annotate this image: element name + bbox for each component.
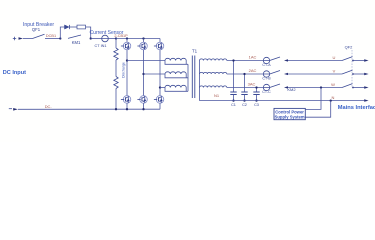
node junction bypass left (59, 37, 61, 39)
breaker QF2 pole U (342, 57, 369, 62)
node N junction control box (330, 99, 332, 101)
net label 2AC (249, 68, 257, 73)
transistor Q5 bottom leg2 (137, 96, 147, 104)
wire DC- rail (18, 108, 160, 110)
wire discharge middle (115, 60, 117, 77)
svg-text:U: U (333, 55, 336, 60)
current sensor CT-B (263, 71, 269, 77)
wire control box to N (305, 101, 330, 118)
net label V (333, 69, 336, 74)
svg-text:2-CB1P: 2-CB1P (114, 34, 128, 38)
wire V row (227, 73, 263, 75)
wire V row to breaker (288, 73, 342, 75)
svg-text:Discharge: Discharge (122, 62, 126, 78)
label Input Breaker (23, 22, 54, 28)
node DC- terminal minus sign (9, 108, 12, 110)
contactor KM2 pole U (270, 57, 288, 62)
svg-text:CT-B: CT-B (262, 77, 271, 81)
net label 2-CB1P (114, 34, 128, 38)
svg-text:DCB1: DCB1 (46, 34, 56, 38)
svg-text:C2: C2 (242, 103, 247, 107)
node DC- leg1 (126, 108, 128, 110)
transistor Q4 bottom leg1 (121, 96, 131, 104)
svg-text:N: N (332, 95, 335, 100)
label KM1 (72, 40, 81, 45)
control power supply box (274, 108, 305, 119)
transformer T1 primary winding 2 (165, 72, 188, 78)
wire N row to arrow (331, 100, 365, 102)
transistor Q1 top leg1 (121, 39, 131, 50)
resistor R discharge lower (114, 77, 118, 89)
node DC- discharge junction (115, 108, 117, 110)
wire secondary star point (199, 61, 201, 101)
node leg3 tap (159, 86, 161, 88)
wire W row (227, 87, 263, 89)
wire leg2 vertical (143, 50, 145, 96)
svg-text:Supply System: Supply System (275, 114, 305, 119)
wire leg3 tap to winding (160, 87, 165, 89)
transformer T1 core (192, 56, 195, 99)
wire DC+ to breaker (23, 38, 33, 40)
wire to current sensor (91, 38, 102, 40)
wire bypass up-left (60, 27, 64, 39)
terminal arrow DC- input (13, 108, 18, 111)
wire leg1 vertical (126, 50, 128, 96)
wire DC+ top rail (116, 38, 160, 40)
transistor Q2 top leg2 (137, 39, 147, 50)
net label N (332, 95, 335, 100)
net label 3AC (248, 81, 256, 86)
terminal arrow N (364, 99, 368, 102)
wire primary link bus (187, 64, 189, 91)
breaker QF1 (33, 34, 45, 38)
diode D1 precharge (65, 25, 70, 29)
wire U row to breaker (288, 60, 342, 62)
wire discharge bottom (115, 89, 117, 110)
current sensor CT-A (263, 57, 269, 63)
svg-text:CT-A: CT-A (262, 63, 271, 67)
wire W row to breaker (288, 87, 342, 89)
label KM2 (287, 87, 296, 92)
svg-text:QF1: QF1 (32, 27, 41, 32)
svg-text:KM2: KM2 (287, 87, 296, 92)
svg-text:C3: C3 (254, 103, 259, 107)
wire U row (227, 60, 263, 62)
label C2 (242, 103, 247, 107)
breaker QF2 pole W (342, 84, 369, 89)
label Mains Interface (338, 105, 375, 111)
transistor Q3 top leg3 (154, 39, 164, 50)
svg-text:1AC: 1AC (249, 54, 257, 59)
svg-text:C1: C1 (231, 103, 236, 107)
net label DCB1 (46, 34, 56, 38)
node leg1 tap (126, 59, 128, 61)
svg-text:QF2: QF2 (345, 45, 354, 50)
transformer T1 secondary winding 3 (200, 86, 227, 88)
svg-text:W: W (331, 82, 335, 87)
wire leg3 to bottom rail (159, 103, 161, 109)
wire N bus (200, 100, 331, 102)
label CT-C (262, 90, 271, 94)
wire discharge branch upper (115, 39, 117, 49)
label C3 (254, 103, 259, 107)
terminal arrow DC+ input (19, 37, 24, 40)
breaker QF2 linkage (351, 50, 353, 88)
net label N1 (214, 93, 220, 98)
svg-text:N1: N1 (214, 93, 220, 98)
net label W (331, 82, 335, 87)
label discharge vertical (122, 62, 126, 78)
wire sensor to bus junction (108, 38, 116, 40)
wire control box to W row (305, 88, 321, 110)
wire leg2 to bottom rail (143, 103, 145, 109)
node rail leg2 (142, 37, 144, 39)
wire diode to resistor (69, 26, 77, 28)
current sensor CT IN1 (102, 35, 109, 42)
svg-text:V: V (333, 69, 336, 74)
svg-text:KM1: KM1 (72, 40, 81, 45)
label Current Sensor (90, 30, 124, 36)
transformer T1 secondary winding 1 (200, 59, 227, 61)
node DC bus junction (115, 37, 117, 39)
node DC- leg2 (142, 108, 144, 110)
net label DCB2 (45, 104, 53, 109)
svg-text:DC Input: DC Input (3, 70, 26, 76)
label CT-B (262, 77, 271, 81)
wire leg3 vertical (159, 50, 161, 96)
resistor R discharge upper (114, 48, 118, 60)
node junction bypass right (90, 37, 92, 39)
svg-text:2AC: 2AC (249, 68, 257, 73)
node leg2 tap (142, 73, 144, 75)
capacitor C1 (230, 59, 236, 101)
label QF2 (345, 45, 354, 50)
current sensor CT-C (263, 84, 269, 90)
breaker QF2 pole V (342, 70, 369, 75)
resistor R precharge (77, 25, 86, 29)
net label U (333, 55, 336, 60)
node rail leg1 (126, 37, 128, 39)
transformer T1 primary winding 1 (165, 58, 188, 64)
node W row control tap (320, 86, 322, 88)
wire leg1 to bottom rail (126, 103, 128, 109)
svg-text:CT IN1: CT IN1 (95, 44, 107, 48)
svg-text:T1: T1 (192, 48, 198, 53)
label CT-A (262, 63, 271, 67)
contactor KM2 pole W (270, 84, 288, 89)
label DC Input (3, 70, 26, 76)
label C1 (231, 103, 236, 107)
wire bypass down-right (86, 27, 91, 39)
wire leg1 tap to winding (127, 60, 165, 62)
transistor Q6 bottom leg3 (154, 96, 164, 104)
contactor KM1 (68, 35, 81, 38)
wire leg2 tap to winding (144, 73, 166, 75)
transformer T1 label (192, 48, 198, 53)
svg-text:DC-: DC- (45, 104, 53, 109)
net label 1AC (249, 54, 257, 59)
contactor KM2 pole V (270, 71, 288, 76)
label QF1 (32, 27, 41, 32)
wire breaker to node (45, 38, 60, 40)
svg-text:3AC: 3AC (248, 81, 256, 86)
svg-text:CT-C: CT-C (262, 90, 271, 94)
transformer T1 secondary winding 2 (200, 72, 227, 74)
label CT IN1 (95, 44, 107, 48)
svg-text:Mains Interface: Mains Interface (338, 105, 375, 111)
capacitor C2 (241, 73, 247, 102)
node DC+ terminal plus sign (13, 37, 16, 40)
transformer T1 primary winding 3 (165, 85, 188, 91)
capacitor C3 (253, 86, 259, 101)
